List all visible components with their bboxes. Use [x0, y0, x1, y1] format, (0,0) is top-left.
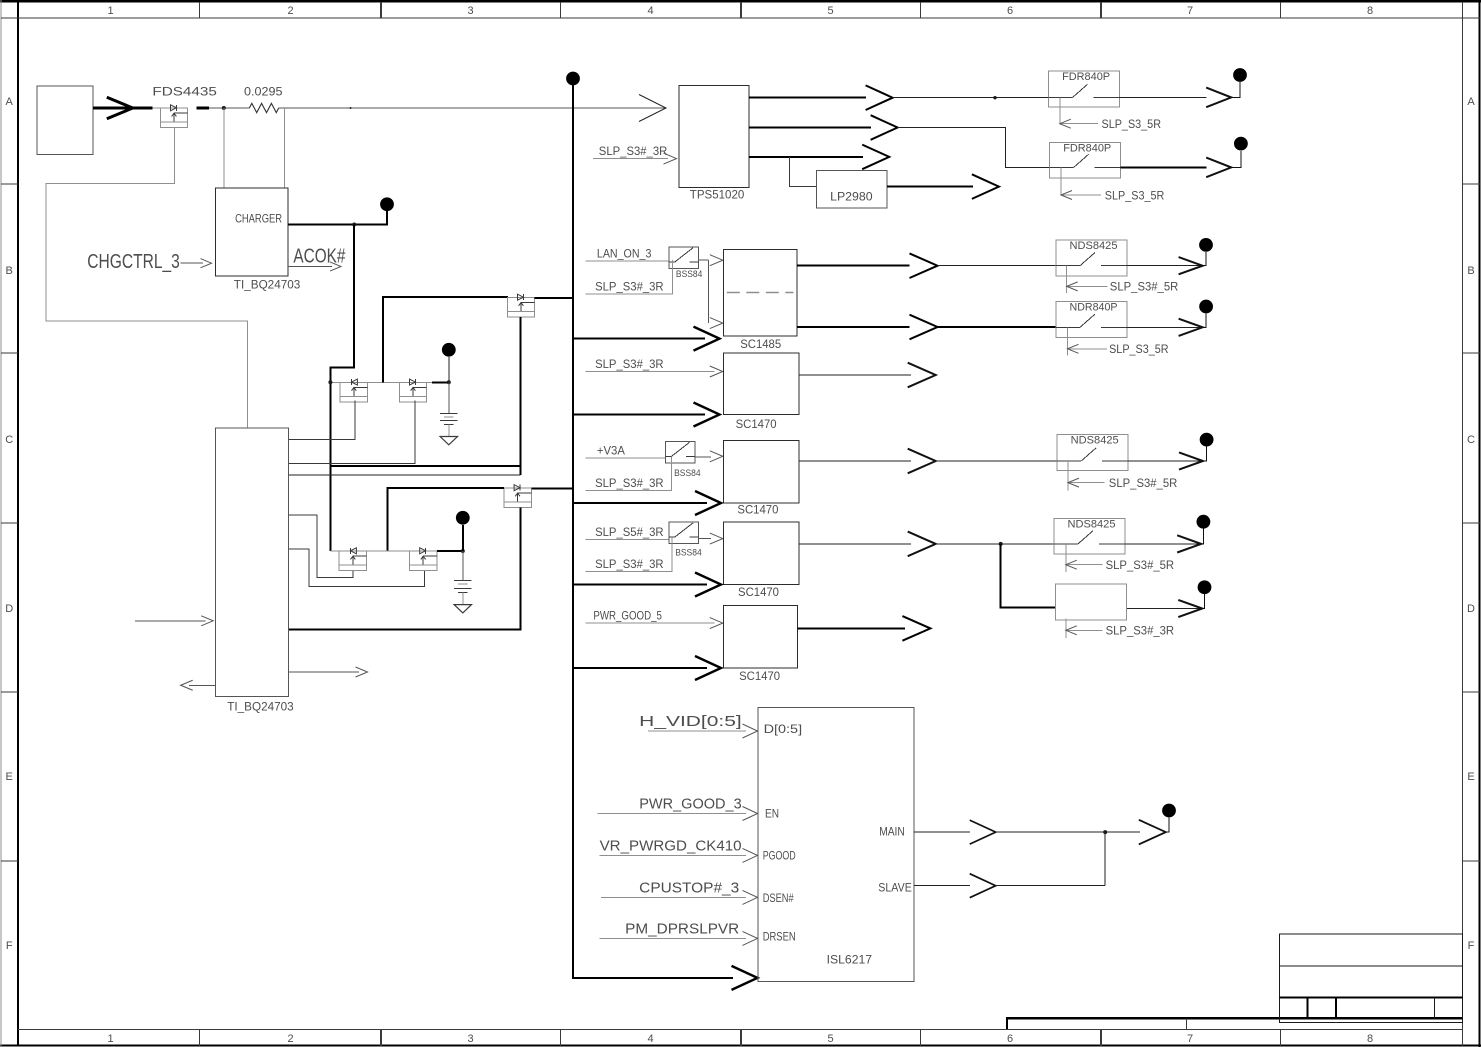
svg-text:H_VID[0:5]: H_VID[0:5]: [639, 713, 742, 730]
svg-text:4: 4: [647, 1033, 653, 1045]
svg-text:3: 3: [467, 5, 473, 17]
wire Q11 gate stub: [1066, 266, 1068, 293]
wire thick gate row 2 right: [437, 550, 463, 552]
arrow U2 output right: [356, 667, 368, 677]
wire VR_PWRGD_CK410 into U10: [600, 854, 746, 856]
svg-text:PM_DPRSLPVR: PM_DPRSLPVR: [625, 920, 739, 937]
label SLP_S3_5R (Q8): [1102, 117, 1162, 131]
svg-text:A: A: [6, 96, 14, 108]
svg-text:PWR_GOOD_3: PWR_GOOD_3: [639, 796, 742, 813]
label SC1470 (U8): [738, 585, 779, 599]
svg-text:SLP_S3#_5R: SLP_S3#_5R: [1109, 476, 1178, 490]
node ball VBAT A: [442, 343, 456, 357]
svg-text:SC1470: SC1470: [736, 417, 777, 431]
arrow Q11 gate: [1067, 282, 1078, 291]
svg-text:SLP_S3#_5R: SLP_S3#_5R: [1106, 558, 1175, 572]
wire MAIN to ball: [1166, 818, 1169, 833]
svg-text:6: 6: [1007, 5, 1013, 17]
controller U10 ISL6217 box: [758, 708, 914, 982]
wire U8 output: [799, 543, 911, 545]
svg-text:NDR840P: NDR840P: [1070, 302, 1118, 314]
junction dot on out1: [993, 96, 996, 99]
arrow Q11 out: [1179, 257, 1203, 274]
wire Q1 gate to U2 route: [46, 128, 248, 428]
svg-text:TI_BQ24703: TI_BQ24703: [227, 699, 294, 713]
wire Q11 gate label line: [1067, 285, 1108, 287]
svg-text:FDS4435: FDS4435: [152, 84, 217, 98]
svg-text:TI_BQ24703: TI_BQ24703: [234, 278, 301, 292]
svg-text:7: 7: [1187, 5, 1193, 17]
svg-text:3: 3: [467, 1033, 473, 1045]
transistor Q15 BSS84: [669, 522, 699, 544]
wire out1 to Q8: [893, 97, 1049, 99]
wire main vertical bus: [572, 85, 574, 979]
arrow bus tap U8: [695, 573, 721, 597]
arrow ACOK#: [330, 262, 341, 271]
wire Q14 gate label line: [1068, 482, 1105, 484]
svg-text:D: D: [1467, 603, 1475, 615]
svg-text:VR_PWRGD_CK410: VR_PWRGD_CK410: [600, 837, 742, 854]
wire Q11 out to node: [1203, 252, 1206, 266]
wire Q7 source down to U2 pin6: [289, 508, 521, 630]
wire Q12 gate stub: [1067, 327, 1069, 355]
wire Q3 source to U2 pin2: [289, 400, 415, 463]
wire out2 to Q9: [898, 128, 1050, 168]
arrow H_VID: [743, 724, 758, 738]
svg-text:8: 8: [1367, 5, 1373, 17]
svg-text:5: 5: [827, 5, 833, 17]
svg-text:F: F: [6, 940, 13, 952]
svg-text:BSS84: BSS84: [674, 468, 701, 478]
junction dot at Q1/R1 net: [222, 106, 226, 110]
wire Q13 out: [695, 456, 711, 458]
wire Q14 out to node: [1203, 447, 1207, 462]
svg-text:B: B: [1467, 265, 1474, 277]
svg-text:2: 2: [287, 5, 293, 17]
transistor Q4 (rail FET A): [507, 294, 534, 317]
wire input into U2 left: [135, 620, 206, 622]
arrow into U9: [710, 618, 723, 629]
label SLP_S3#_3R (U6): [595, 357, 664, 371]
node ball Q16 output: [1197, 515, 1211, 529]
label TPS51020: [690, 188, 745, 202]
label BSS84 (Q10): [676, 269, 703, 279]
wire U5 out2 thick: [797, 326, 910, 328]
svg-text:B: B: [6, 265, 13, 277]
wire Q16 out to node: [1201, 529, 1203, 544]
transistor Q6 (battery FET D): [410, 548, 437, 571]
wire SLP_S3#_3R to Q10 gate: [585, 260, 672, 294]
wire MAIN to node: [996, 831, 1140, 833]
transistor Q1 FDS4435: [160, 105, 187, 128]
wire bus tap to U9 thick: [573, 667, 707, 669]
resistor R1 0.0295: [249, 103, 278, 112]
svg-text:1: 1: [107, 5, 113, 17]
pin label PGOOD: [763, 849, 796, 863]
arrow into U2 left: [201, 616, 213, 626]
arrow into U8: [710, 533, 723, 544]
wire SLAVE out: [914, 885, 970, 887]
junction dot ACOK# net: [352, 223, 356, 227]
wire U9 output thick: [797, 627, 905, 629]
wire U3 out1 thick: [749, 97, 866, 99]
arrow SLP_S3#_3R into U3: [664, 153, 677, 164]
junction dot gate row 2: [461, 549, 465, 553]
node ball main bus top: [566, 72, 580, 86]
wire U7 out to Q14: [936, 460, 1057, 462]
svg-text:SC1470: SC1470: [739, 669, 780, 683]
label BSS84 (Q15): [675, 547, 702, 557]
label LP2980: [830, 190, 873, 204]
wire H_VID into U10: [648, 730, 746, 732]
wire bus tap to U8 thick: [573, 584, 707, 586]
controller U5 SC1485 box: [723, 249, 797, 336]
arrow bus tap U7: [695, 491, 721, 515]
arrow bus tap U9: [695, 656, 721, 680]
label CPUSTOP#_3: [639, 879, 739, 896]
pin label D[0:5]: [764, 722, 803, 736]
arrow U5 out2: [910, 315, 938, 340]
label PM_DPRSLPVR: [625, 920, 739, 937]
battery BT1 with ground: [440, 382, 458, 445]
label VR_PWRGD_CK410: [600, 837, 742, 854]
svg-text:E: E: [1467, 771, 1474, 783]
regulator U9 SC1470 box: [723, 606, 797, 668]
wire thick drain row 1: [383, 297, 508, 382]
arrow Q16 gate: [1066, 560, 1077, 569]
svg-text:SLP_S3#_3R: SLP_S3#_3R: [1106, 624, 1175, 638]
wire Q7 to main bus: [531, 487, 573, 489]
svg-text:SLP_S3#_3R: SLP_S3#_3R: [595, 279, 664, 293]
label SLP_S3#_5R (Q14): [1109, 476, 1178, 490]
pin label SLAVE: [878, 881, 912, 895]
arrow Q16 out: [1177, 535, 1201, 552]
label PWR_GOOD_3: [639, 796, 742, 813]
wire SLAVE to node: [996, 885, 1105, 887]
pin label DSEN#: [763, 891, 794, 905]
svg-text:FDR840P: FDR840P: [1063, 143, 1111, 155]
label SLP_S5#_3R: [595, 525, 664, 539]
label TI_BQ24703 (U2): [227, 699, 294, 713]
wire Q17 out: [1127, 608, 1202, 610]
wire bus tap to U5 thick: [573, 338, 705, 340]
wire Q8 gate label line: [1060, 123, 1098, 125]
svg-text:D: D: [5, 603, 13, 615]
transistor Q7 (rail FET B): [504, 485, 531, 508]
svg-text:SC1470: SC1470: [738, 585, 779, 599]
arrow U8 output: [908, 532, 936, 557]
arrow into U6: [710, 366, 723, 377]
junction dot gate row 1 left: [328, 380, 332, 384]
wire PM_DPRSLPVR into U10: [600, 937, 746, 939]
arrow MAIN 2: [1139, 820, 1166, 845]
svg-text:2: 2: [287, 1033, 293, 1045]
svg-text:SLP_S3_5R: SLP_S3_5R: [1109, 342, 1169, 356]
wire CPUSTOP#_3 into U10: [601, 896, 746, 898]
wire gate row 1: [330, 381, 431, 383]
arrow Q17 out: [1178, 600, 1202, 617]
wire ball to row 2: [462, 525, 464, 551]
arrow U2 output left: [181, 680, 193, 690]
svg-text:C: C: [1467, 434, 1475, 446]
wire Q6 source to U2 pin5: [289, 549, 425, 586]
wire to R1: [209, 107, 249, 109]
wire Q9 gate stub: [1060, 167, 1062, 195]
svg-text:5: 5: [827, 1033, 833, 1045]
wire Q14 out: [1128, 460, 1203, 462]
wire Q16 gate label line: [1066, 564, 1103, 566]
node ball MAIN output: [1162, 804, 1176, 818]
svg-text:SLP_S5#_3R: SLP_S5#_3R: [595, 525, 664, 539]
wire Q9 out thick: [1121, 166, 1207, 168]
label SLP_S3_5R (Q9): [1105, 188, 1165, 202]
svg-text:ISL6217: ISL6217: [827, 953, 873, 967]
arrow Q12 out: [1179, 319, 1203, 336]
wire SLP_S5#_3R: [585, 539, 669, 541]
svg-text:0.0295: 0.0295: [244, 84, 283, 98]
wire Q17 gate label line: [1066, 629, 1103, 631]
junction dot U8 out branch: [999, 542, 1003, 546]
wire R1 left sense tap: [223, 108, 225, 188]
arrow MAIN 1: [970, 820, 996, 844]
label SLP_S3#_5R (Q11): [1110, 280, 1179, 294]
svg-text:SLP_S3_5R: SLP_S3_5R: [1105, 188, 1165, 202]
arrow PWR_GOOD_3: [743, 807, 758, 821]
transistor Q17 (unlabeled switch box): [1056, 584, 1127, 620]
wire SLAVE up to MAIN: [1104, 832, 1106, 886]
wire Q4 source down: [519, 317, 521, 475]
node ball Q8 output: [1233, 68, 1247, 82]
svg-text:D[0:5]: D[0:5]: [764, 722, 803, 736]
title block: [1279, 934, 1462, 1022]
wire U2 output right: [289, 671, 359, 673]
wire bus tap to U7 thick: [573, 502, 707, 504]
label SLP_S3#_3R (Q13 gate): [595, 476, 664, 490]
wire gate row 2: [330, 550, 409, 552]
wire CHGCTRL_3 into U1: [181, 262, 204, 264]
arrow Q14 out: [1179, 452, 1203, 469]
svg-text:SLP_S3#_5R: SLP_S3#_5R: [1110, 280, 1179, 294]
wire bus tap to U6 thick: [573, 414, 705, 416]
label SC1485: [740, 337, 781, 351]
node ball Q11 output: [1199, 238, 1213, 252]
node ball ACOK# net: [380, 197, 394, 211]
transistor Q2 (battery FET A): [340, 379, 367, 402]
arrow U3 out3: [862, 145, 889, 170]
wire thick branch upper: [330, 465, 520, 467]
regulator U4 LP2980 box: [817, 171, 887, 208]
svg-text:8: 8: [1367, 1033, 1373, 1045]
wire Q16 out: [1125, 543, 1201, 545]
arrow Q8 out: [1206, 88, 1231, 108]
label CHARGER: [235, 211, 282, 225]
svg-text:SLP_S3#_3R: SLP_S3#_3R: [599, 144, 668, 158]
node ball Q9 output: [1234, 137, 1248, 151]
arrow Q9 gate: [1061, 191, 1072, 200]
junction dot MAIN/SLAVE: [1103, 830, 1107, 834]
arrow into U5 pin1: [710, 255, 723, 266]
regulator U3 TPS51020 box: [679, 85, 749, 187]
wire SLP_S3#_3R into U6: [585, 371, 714, 373]
svg-text:PGOOD: PGOOD: [763, 849, 796, 863]
arrow U9 output: [902, 616, 930, 641]
wire R1 right sense tap: [284, 108, 286, 188]
wire Q12 gate label line: [1068, 348, 1107, 350]
svg-text:SLP_S3_5R: SLP_S3_5R: [1102, 117, 1162, 131]
svg-text:+V3A: +V3A: [597, 444, 625, 458]
wire LAN_ON_3: [585, 260, 669, 262]
svg-text:CHARGER: CHARGER: [235, 211, 282, 225]
label SLP_S3#_3R (Q17): [1106, 624, 1175, 638]
label +V3A: [597, 444, 625, 458]
svg-text:F: F: [1468, 940, 1475, 952]
svg-text:DRSEN: DRSEN: [763, 930, 796, 944]
wire Q8 out to node: [1231, 82, 1240, 97]
svg-text:7: 7: [1187, 1033, 1193, 1045]
label BSS84 (Q13): [674, 468, 701, 478]
svg-text:PWR_GOOD_5: PWR_GOOD_5: [593, 609, 662, 623]
arrow U3 out2: [871, 115, 898, 140]
wire PWR_GOOD_5: [585, 622, 714, 624]
wire into Q1: [152, 107, 160, 109]
svg-text:6: 6: [1007, 1033, 1013, 1045]
wire out2 to Q12 thick: [938, 326, 1057, 328]
wire out3 branch to U4: [790, 157, 817, 187]
label ACOK#: [293, 245, 346, 267]
divider dashed in U5: [727, 292, 794, 294]
label SLP_S3#_3R (U3 enable): [599, 144, 668, 158]
arrow U3 out1: [866, 85, 893, 110]
label SLP_S3#_5R (Q16): [1106, 558, 1175, 572]
wire Q9 gate label line: [1061, 194, 1101, 196]
label SLP_S3#_3R (Q10 gate): [595, 279, 664, 293]
wire Q15 out: [699, 538, 711, 540]
label ISL6217: [827, 953, 873, 967]
transistor Q9 FDR840P: [1050, 143, 1121, 179]
arrow PM_DPRSLPVR: [743, 931, 758, 945]
label PWR_GOOD_5: [593, 609, 662, 623]
arrow Q9 out: [1206, 158, 1231, 178]
label TI_BQ24703 (U1): [234, 278, 301, 292]
arrow U5 out1: [910, 253, 938, 278]
arrow SLAVE: [970, 874, 996, 898]
svg-text:SLAVE: SLAVE: [878, 881, 912, 895]
transistor Q16 NDS8425: [1054, 519, 1125, 555]
arrow U7 output: [908, 449, 936, 474]
pin label DRSEN: [763, 930, 796, 944]
svg-text:NDS8425: NDS8425: [1070, 240, 1118, 252]
svg-text:NDS8425: NDS8425: [1071, 435, 1119, 447]
svg-text:NDS8425: NDS8425: [1068, 519, 1116, 531]
battery BT2 with ground: [454, 551, 472, 613]
wire Q12 out: [1127, 326, 1203, 328]
transistor Q14 NDS8425: [1057, 435, 1128, 471]
wire PWR_GOOD_3 into U10: [597, 813, 746, 815]
wire ACOK# out of U1: [288, 266, 332, 268]
arrow Q17 gate: [1066, 626, 1077, 635]
wire Q5 source to U2 pin4: [289, 515, 353, 577]
title block base line: [1007, 1018, 1462, 1029]
arrow VR_PWRGD_CK410: [743, 848, 758, 862]
svg-text:EN: EN: [765, 807, 779, 821]
svg-text:DSEN#: DSEN#: [763, 891, 794, 905]
wire SLP_S3#_3R into U3: [593, 158, 668, 160]
svg-text:MAIN: MAIN: [879, 825, 905, 839]
svg-text:E: E: [6, 771, 13, 783]
wire Q12 out to node: [1203, 314, 1207, 328]
regulator U8 SC1470 box: [723, 522, 799, 585]
svg-text:TPS51020: TPS51020: [690, 188, 745, 202]
arrow bus into ISL6217: [732, 966, 758, 990]
svg-text:BSS84: BSS84: [675, 547, 702, 557]
label FDS4435: [152, 84, 217, 98]
transistor Q3 (battery FET B): [399, 379, 426, 402]
wire main rail to TPS51020: [279, 107, 666, 109]
transistor Q13 BSS84: [665, 442, 695, 464]
wire ACOK# net down: [330, 225, 354, 552]
wire bus to ISL6217 bottom: [573, 977, 733, 979]
svg-text:4: 4: [647, 5, 653, 17]
wire U2 pin3 to node: [289, 474, 521, 476]
wire Q10 out split: [699, 260, 709, 323]
arrow into TPS51020: [639, 95, 666, 122]
node ball Q12 output: [1199, 300, 1213, 314]
svg-text:ACOK#: ACOK#: [293, 245, 346, 267]
wire U7 output: [799, 460, 911, 462]
label CHGCTRL_3: [87, 251, 180, 273]
node ball VBAT B: [456, 511, 470, 525]
wire U3 out3 thick: [749, 156, 863, 158]
wire Q2 source to U2 pin1: [289, 400, 355, 439]
wire Q17 gate stub: [1065, 619, 1067, 638]
svg-text:C: C: [5, 434, 13, 446]
wire U8 out to Q16: [936, 543, 1054, 545]
wire U4 output thick: [887, 186, 973, 188]
label H_VID[0:5]: [639, 713, 742, 730]
wire Q16 gate stub: [1065, 544, 1067, 572]
svg-text:FDR840P: FDR840P: [1062, 71, 1110, 83]
label SLP_S3#_3R (Q15 gate): [595, 557, 664, 571]
arrow U6 output: [908, 363, 936, 388]
transistor Q12 NDR840P: [1056, 302, 1127, 338]
wire Q8 gate stub: [1059, 97, 1061, 123]
wire MAIN out: [914, 831, 970, 833]
pin label MAIN: [879, 825, 905, 839]
wire Q9 out to node: [1231, 151, 1241, 167]
wire branch down to Q17 thick: [1001, 544, 1056, 607]
wire Q11 out: [1127, 265, 1203, 267]
transistor Q10 BSS84: [669, 247, 699, 269]
arrow CPUSTOP#_3: [743, 890, 758, 904]
charger U1 box: [216, 188, 288, 276]
arrow bus tap U5: [694, 327, 720, 351]
connector J1 (AC adapter input box): [37, 86, 93, 154]
regulator U7 SC1470 box: [723, 441, 799, 504]
label SC1470 (U6): [736, 417, 777, 431]
wire SLP_S3#_3R to Q13 gate: [585, 457, 671, 491]
wire thick gate row 1 right: [432, 381, 449, 383]
wire U5 out1 thick: [797, 265, 910, 267]
wire +V3A: [585, 457, 665, 459]
arrow bus tap U6: [694, 403, 720, 427]
wire U2 output left: [189, 684, 215, 686]
arrow Q8 gate: [1060, 119, 1071, 128]
svg-text:SC1485: SC1485: [740, 337, 781, 351]
label SC1470 (U7): [737, 503, 778, 517]
wire Q14 gate stub: [1067, 461, 1069, 491]
wire Q8 out: [1120, 96, 1207, 98]
svg-text:CHGCTRL_3: CHGCTRL_3: [87, 251, 180, 273]
